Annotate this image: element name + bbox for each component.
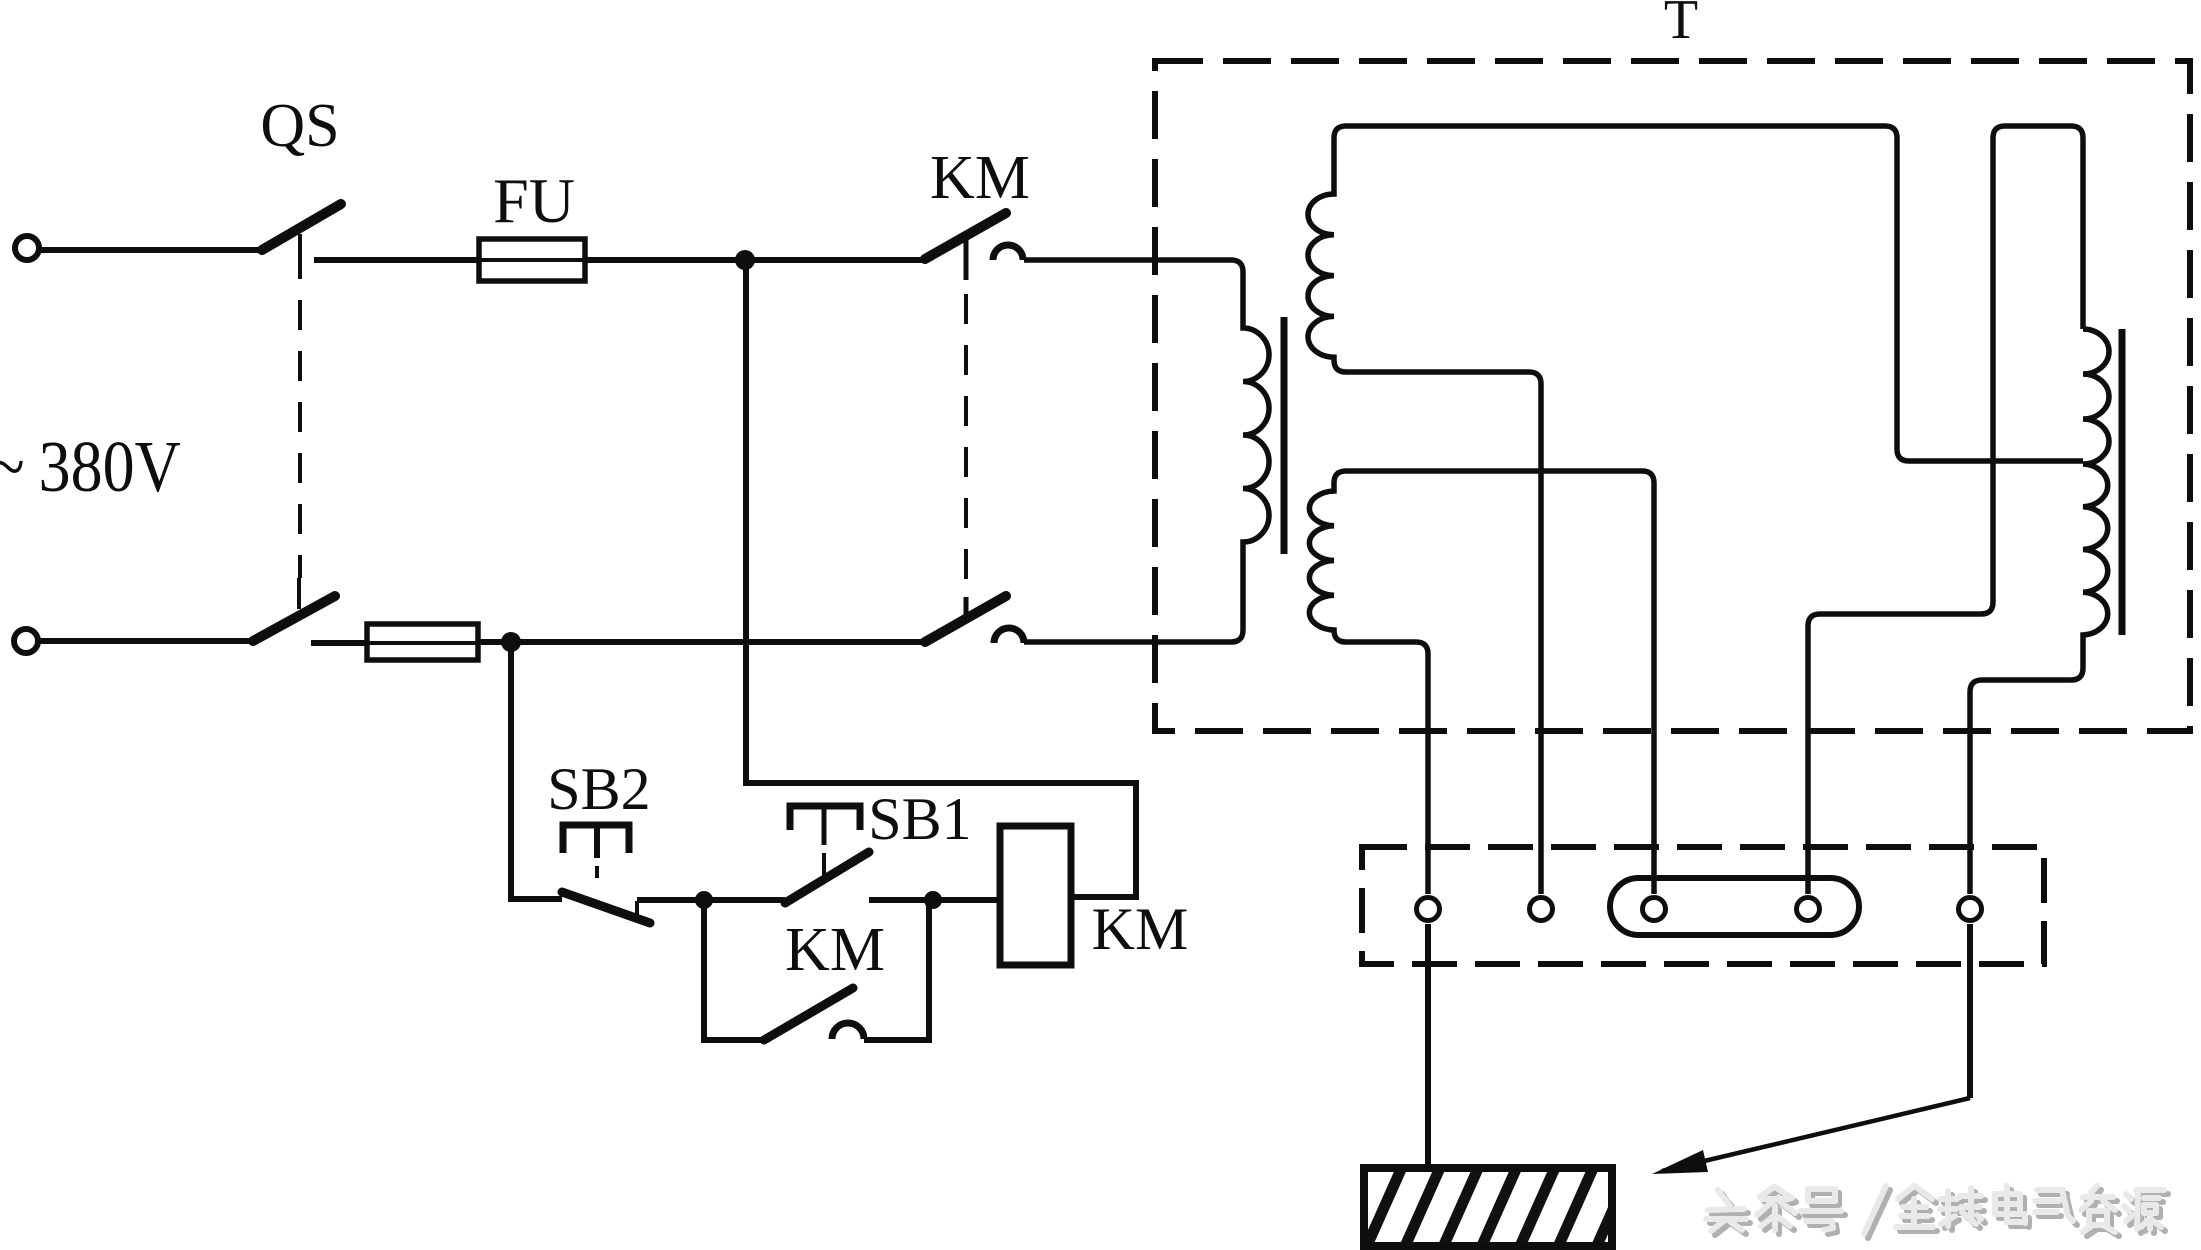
wire SB2 branch from node B [511, 642, 562, 899]
contactor KM pivot tick 1 [964, 238, 969, 280]
transformer T1 secondary upper winding with wire to reactor tap [1308, 126, 2083, 894]
wire node D to KM coil [933, 897, 1000, 903]
transformer T1 secondary lower winding [1309, 483, 1428, 894]
contactor KM fixed hook 1 [993, 245, 1023, 260]
reactor winding [1970, 329, 2109, 894]
svg-text:FU: FU [493, 165, 575, 236]
wire control branch from node A to KM coil [746, 260, 1136, 897]
fuse FU2 body [367, 624, 478, 660]
wire node C to SB1 [704, 897, 785, 903]
terminal 2 [1530, 898, 1553, 921]
wire L1 to QS [40, 247, 262, 253]
pushbutton SB2 actuator stem [594, 825, 600, 858]
switch QS pivot 1 [298, 234, 302, 279]
transformer T enclosure dashed box [1155, 61, 2190, 731]
terminal 5 [1959, 898, 1982, 921]
pushbutton SB1 actuator bracket [790, 806, 860, 830]
terminal L1 [15, 236, 39, 260]
terminal link stadium [1610, 878, 1859, 935]
terminal L2 [14, 629, 38, 653]
wire SB2 to node C [637, 897, 704, 903]
contactor KM linkage [964, 294, 968, 592]
reactor core [2119, 329, 2126, 635]
node C junction dot [695, 891, 713, 909]
terminal strip dashed box [1362, 847, 2044, 964]
contactor KM auxiliary fixed hook [832, 1023, 864, 1039]
switch QS blade 1 [262, 204, 341, 250]
arrow line to electrode [1662, 1098, 1970, 1171]
pushbutton SB2 actuator bracket [563, 825, 629, 853]
fuse FU1 body [479, 239, 585, 281]
pushbutton SB1 blade [785, 852, 869, 903]
svg-text:KM: KM [930, 144, 1030, 212]
contactor KM fixed hook 2 [994, 628, 1024, 643]
switch QS linkage [298, 300, 302, 578]
node B junction dot [501, 632, 521, 652]
pushbutton SB1 stem dash [822, 853, 826, 877]
fuse FU1 element [479, 258, 585, 262]
wire reactor top to terminal 4 [1808, 126, 2005, 894]
node A junction dot [735, 250, 755, 270]
transformer T1 primary winding [1024, 260, 1269, 642]
wire latch branch left [704, 904, 762, 1040]
contactor coil KM [1000, 826, 1071, 965]
node D junction dot [924, 891, 942, 909]
svg-text:QS: QS [260, 92, 339, 160]
svg-text:KM: KM [1092, 896, 1189, 962]
wire QS to FU2 [311, 640, 367, 646]
wire FU1 to KM [585, 257, 925, 263]
wire T1 lower winding top tap to terminal 3 [1334, 471, 1654, 894]
svg-text:T: T [1664, 0, 1698, 51]
svg-text:SB1: SB1 [868, 786, 971, 852]
pushbutton SB1 actuator stem [822, 806, 827, 845]
wire QS to FU1 [314, 257, 479, 263]
contactor KM main blade 1 [925, 213, 1006, 259]
contactor KM pivot tick 2 [964, 597, 969, 616]
terminal 4 [1797, 898, 1820, 921]
wire L2 to QS [40, 638, 253, 644]
wire reactor top connector [2005, 126, 2083, 329]
wire terminal 1 to workpiece [1425, 924, 1431, 1168]
pushbutton SB2 blade [562, 892, 650, 923]
terminal 1 [1417, 898, 1440, 921]
switch QS blade 2 [253, 596, 335, 641]
fuse FU2 element [367, 641, 478, 645]
pushbutton SB2 fixed contact tick [635, 901, 639, 916]
svg-text:KM: KM [785, 916, 885, 984]
contactor KM auxiliary blade [764, 988, 853, 1040]
terminal 3 [1643, 898, 1666, 921]
contactor KM main blade 2 [925, 596, 1006, 642]
arrow head [1652, 1150, 1708, 1174]
wire FU2 to KM [478, 639, 925, 645]
wire terminal 5 down [1967, 924, 1973, 1098]
switch QS pivot 2 [297, 578, 301, 609]
svg-text:SB2: SB2 [547, 756, 650, 822]
workpiece hatched electrode plate [1364, 1168, 1612, 1246]
pushbutton SB2 stem dash [595, 866, 599, 878]
transformer T1 core [1281, 317, 1288, 554]
wire SB1 to node D [869, 897, 933, 903]
wire latch branch right [864, 899, 929, 1040]
svg-text:~380V: ~380V [0, 426, 181, 507]
